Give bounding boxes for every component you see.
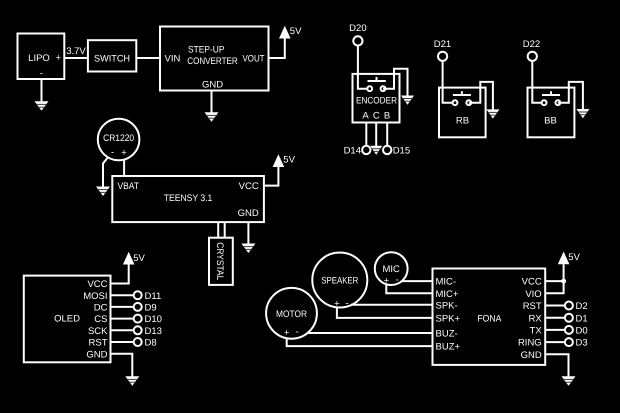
ground (RB) [486, 109, 499, 118]
ground (BB) [576, 109, 589, 118]
svg-text:MIC-: MIC- [436, 277, 457, 288]
svg-text:D22: D22 [523, 39, 540, 50]
pushbutton RB [439, 88, 486, 138]
svg-text:RB: RB [456, 116, 469, 127]
svg-text:VCC: VCC [239, 181, 259, 192]
svg-text:D0: D0 [576, 326, 588, 337]
wire OLED CS [111, 318, 134, 320]
wire OLED SCK [111, 329, 134, 331]
wire OLED RST [111, 341, 134, 343]
svg-text:CONVERTER: CONVERTER [187, 56, 238, 67]
svg-text:D20: D20 [349, 23, 366, 34]
svg-text:GND: GND [86, 349, 107, 360]
svg-text:BB: BB [544, 116, 557, 127]
wire CR1220 plus to VBAT [123, 160, 125, 177]
svg-text:MOSI: MOSI [83, 291, 107, 302]
pin D1 [565, 313, 588, 324]
svg-text:D9: D9 [145, 303, 157, 314]
pin D21 [434, 39, 451, 61]
svg-text:-: - [396, 275, 399, 286]
ground (OLED) [125, 376, 139, 386]
svg-text:GND: GND [521, 350, 542, 361]
svg-text:D3: D3 [576, 338, 588, 349]
microcontroller TEENSY 3.1 [112, 176, 264, 222]
svg-text:-: - [346, 298, 349, 309]
cellular module FONA [433, 269, 546, 365]
wire FONA TX [545, 329, 565, 331]
wire LIPO to SWITCH [64, 57, 88, 59]
svg-text:D14: D14 [344, 146, 361, 157]
svg-text:+: + [284, 327, 290, 338]
power 5V (OLED) [123, 252, 146, 265]
svg-text:-: - [296, 326, 299, 337]
svg-text:D10: D10 [145, 314, 162, 325]
wire encoder common to ground [383, 69, 408, 96]
ground (LIPO) [35, 101, 49, 111]
battery LIPO [18, 34, 65, 80]
wire SWITCH to VIN [136, 57, 160, 59]
svg-text:RST: RST [89, 338, 108, 349]
svg-text:BUZ-: BUZ- [436, 329, 458, 340]
svg-text:VCC: VCC [522, 277, 542, 288]
pin D13 [134, 326, 162, 337]
svg-text:+: + [384, 275, 390, 286]
svg-text:RST: RST [523, 301, 542, 312]
svg-text:SPK+: SPK+ [436, 314, 461, 325]
svg-text:5V: 5V [568, 252, 580, 263]
pin D14 [344, 146, 371, 157]
pin D20 [349, 23, 366, 46]
wire RB to ground [469, 82, 493, 110]
wire MOTOR plus to BUZ+ [287, 338, 433, 346]
ground (FONA) [562, 376, 576, 386]
svg-text:DC: DC [94, 303, 108, 314]
wire MOTOR minus to BUZ- [308, 332, 433, 334]
power 5V (TEENSY) [273, 154, 296, 167]
wire MIC minus to MIC- [402, 280, 433, 282]
svg-text:+: + [121, 148, 127, 159]
wire encoder C to ground [375, 123, 377, 147]
wire FONA RX [545, 317, 565, 319]
svg-text:TEENSY 3.1: TEENSY 3.1 [164, 193, 213, 204]
svg-text:5V: 5V [133, 253, 145, 264]
wire SPEAKER plus to SPK+ [337, 307, 433, 318]
svg-text:VCC: VCC [87, 279, 107, 290]
wire TEENSY to CRYSTAL (left) [217, 222, 219, 238]
ground (CR1220) [96, 187, 110, 197]
svg-text:D2: D2 [576, 301, 588, 312]
svg-text:VIN: VIN [165, 54, 181, 65]
wire FONA VIO to 5V [545, 264, 563, 293]
wire converter GND to ground [211, 91, 213, 113]
power 5V (converter) [279, 26, 302, 39]
svg-text:LIPO: LIPO [28, 53, 50, 64]
svg-text:D1: D1 [576, 313, 588, 324]
svg-text:MOTOR: MOTOR [276, 309, 307, 320]
wire D22 to BB [532, 61, 542, 103]
svg-text:MIC+: MIC+ [436, 289, 459, 300]
junction VCC/VIO [561, 279, 566, 284]
power 5V (FONA) [558, 252, 581, 265]
svg-text:D13: D13 [145, 326, 162, 337]
vibration motor MOTOR [266, 288, 317, 339]
svg-text:FONA: FONA [477, 314, 502, 325]
coin cell CR1220 [98, 119, 140, 161]
wire LIPO minus to ground [41, 79, 43, 102]
ground (encoder C) [370, 146, 382, 155]
svg-text:-: - [40, 68, 43, 79]
wire FONA GND to ground [545, 354, 568, 377]
crystal Y1 [209, 238, 233, 285]
svg-text:CR1220: CR1220 [103, 133, 134, 144]
pin D9 [134, 303, 157, 314]
wire CR1220 minus to ground [103, 158, 108, 188]
svg-text:GND: GND [238, 208, 259, 219]
svg-text:3.7V: 3.7V [66, 46, 86, 57]
svg-text:RING: RING [518, 338, 542, 349]
svg-text:OLED: OLED [54, 314, 80, 325]
svg-text:A: A [362, 110, 369, 121]
speaker SPEAKER [312, 253, 367, 310]
wire OLED GND to ground [111, 354, 133, 377]
svg-text:TX: TX [530, 326, 543, 337]
svg-text:CS: CS [94, 314, 107, 325]
svg-text:RX: RX [528, 313, 542, 324]
wire SPEAKER minus to SPK- [351, 304, 433, 306]
wire D20 to encoder [358, 46, 368, 89]
wire VOUT to 5V [269, 39, 285, 59]
pin D22 [523, 39, 540, 61]
pushbutton BB [528, 88, 575, 138]
wire TEENSY to CRYSTAL (right) [224, 222, 226, 238]
svg-text:SPK-: SPK- [436, 300, 458, 311]
step-up converter U1 [160, 27, 269, 91]
ground (converter) [205, 112, 219, 122]
display OLED [24, 276, 111, 363]
svg-text:VOUT: VOUT [243, 54, 265, 65]
switch S1 [88, 40, 136, 71]
svg-text:C: C [373, 110, 380, 121]
wire FONA RING [545, 341, 565, 343]
svg-text:ENCODER: ENCODER [356, 96, 397, 107]
svg-text:GND: GND [202, 80, 223, 91]
svg-text:SPEAKER: SPEAKER [321, 276, 358, 287]
wire BB to ground [558, 82, 583, 110]
svg-text:VIO: VIO [525, 289, 541, 300]
wire OLED MOSI [111, 294, 134, 296]
wire TEENSY GND to ground [247, 222, 249, 244]
pin D10 [134, 314, 162, 325]
wire TEENSY VCC to 5V [264, 167, 279, 186]
svg-text:STEP-UP: STEP-UP [188, 45, 225, 56]
svg-text:+: + [56, 52, 62, 63]
pin D2 [565, 301, 588, 312]
pin D8 [134, 338, 157, 349]
wire FONA VCC to 5V [545, 280, 563, 282]
svg-text:SCK: SCK [88, 326, 108, 337]
svg-text:D8: D8 [145, 338, 157, 349]
svg-text:VBAT: VBAT [118, 181, 140, 192]
wire D21 to RB [443, 61, 454, 103]
wire OLED VCC to 5V [111, 265, 129, 284]
svg-text:SWITCH: SWITCH [94, 54, 130, 65]
wire FONA RST [545, 305, 565, 307]
wire MIC plus to MIC+ [386, 285, 432, 294]
svg-text:5V: 5V [283, 155, 295, 166]
ground (TEENSY) [241, 244, 255, 254]
microphone MIC [375, 252, 408, 286]
svg-text:BUZ+: BUZ+ [436, 342, 461, 353]
svg-text:D21: D21 [434, 39, 451, 50]
svg-text:5V: 5V [290, 26, 302, 37]
svg-text:B: B [384, 110, 390, 121]
svg-text:CRYSTAL: CRYSTAL [214, 242, 225, 280]
pin D15 [383, 146, 410, 157]
rotary encoder [353, 74, 400, 123]
wire encoder B to D15 [386, 123, 388, 147]
svg-text:D11: D11 [145, 291, 162, 302]
ground (encoder top) [401, 96, 414, 105]
svg-text:-: - [111, 147, 114, 158]
svg-text:D15: D15 [393, 146, 410, 157]
pin D11 [134, 291, 162, 302]
pin D0 [565, 326, 588, 337]
wire OLED DC [111, 306, 134, 308]
pin D3 [565, 338, 588, 349]
wire encoder A to D14 [365, 123, 367, 147]
